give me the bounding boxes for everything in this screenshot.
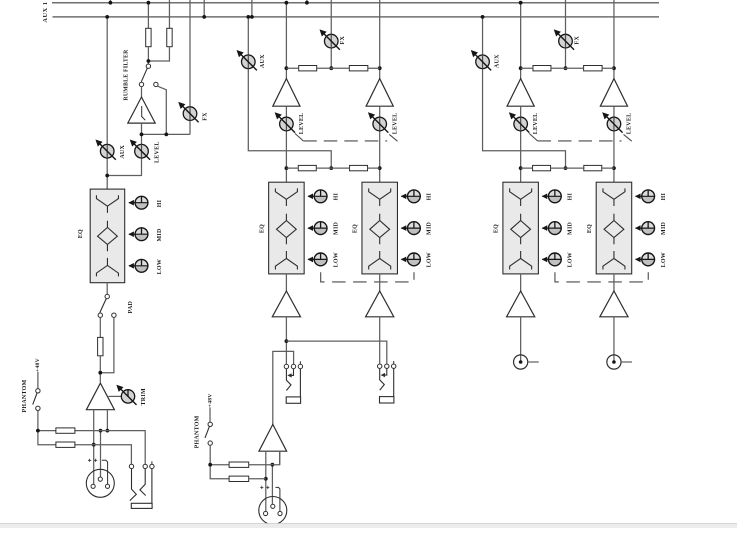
- wire R3 to preamp: [99, 356, 101, 383]
- jack connector line input jack 2R: [378, 361, 396, 403]
- node bypass join: [164, 133, 168, 137]
- wire R1 to filter switch: [147, 47, 149, 64]
- svg-text:MID: MID: [157, 228, 163, 241]
- wire 3 fx resistor row: [521, 67, 614, 69]
- resistor R aux-left 3: [533, 165, 551, 170]
- node junction at 565.5,168.1: [564, 166, 568, 170]
- wire AUX bus through AUX pot to EQ input: [106, 17, 108, 189]
- svg-text:EQ: EQ: [78, 229, 84, 238]
- resistor R aux-left 2: [298, 165, 316, 170]
- svg-text:AUX: AUX: [120, 145, 126, 159]
- wire stub to upper bus at x110: [109, 0, 111, 3]
- node bus1 tap 3L: [519, 1, 523, 5]
- wire 2L EQ to amp: [285, 274, 287, 291]
- resistor R2 rumble filter: [167, 28, 172, 46]
- node junction at 286.4,168.1: [285, 166, 289, 170]
- contact switch contact at 210.19999999999996,443.1: [208, 441, 212, 445]
- node bus2 x252: [250, 15, 254, 19]
- svg-text:+48V: +48V: [35, 358, 41, 372]
- trim knob MID 3R: [635, 222, 655, 235]
- EQ block EQ 3L: [503, 182, 539, 274]
- potentiometer LEVEL 2L: [276, 113, 295, 132]
- op-amp U out 3R: [600, 291, 628, 317]
- contact switch contact at 107.2,296.5: [105, 294, 109, 298]
- node junction at 331.24999999999994,168.1: [329, 166, 333, 170]
- wire 3 FX send line: [565, 0, 567, 68]
- node bus1 tap 2L: [285, 1, 289, 5]
- potentiometer FX 3: [555, 30, 574, 49]
- node bus2 tap 2: [246, 15, 250, 19]
- resistor R4 phantom ch1: [56, 428, 75, 433]
- node junction at 613.95,168.1: [612, 166, 616, 170]
- svg-text:AUX: AUX: [260, 54, 266, 68]
- contact switch contact at 113.9,315.2: [112, 313, 116, 317]
- node line1 join pin2: [99, 429, 103, 433]
- resistor R fx-left 3: [533, 66, 551, 71]
- pin marks 2: [260, 486, 269, 489]
- wire 2 preamp -in to XLR pin1: [265, 451, 267, 511]
- op-amp U2 mic preamp ch1: [86, 383, 114, 410]
- node phantom node 2: [208, 463, 212, 467]
- trim knob LOW 3R: [635, 253, 655, 266]
- node phantom join pin1: [92, 443, 96, 447]
- wire 2 left branch from bus1: [285, 3, 287, 79]
- svg-text:LOW: LOW: [568, 252, 574, 267]
- bus AUX 1 line B: [53, 16, 660, 18]
- svg-text:+48V: +48V: [208, 393, 214, 407]
- op-amp U out 3L: [507, 291, 535, 317]
- wire 2 phantom to resistors: [210, 445, 229, 479]
- svg-text:LEVEL: LEVEL: [392, 113, 398, 135]
- node bus2 tap ch1: [105, 15, 109, 19]
- wire 3 aux resistor row: [521, 167, 614, 169]
- wire 2R amp to jack tip: [379, 317, 381, 364]
- EQ block EQ 2R: [362, 182, 398, 274]
- node bus1 x148: [147, 1, 151, 5]
- wire switch to phantom resistors: [38, 411, 56, 445]
- wire bus1 to rumble resistor R1: [147, 3, 149, 29]
- node line1 join leg: [106, 429, 110, 433]
- node 2 phantom join pin1: [264, 477, 268, 481]
- gang link EQ 3: [555, 272, 648, 282]
- node junction at 520.65,68.2: [519, 66, 523, 70]
- potentiometer TRIM ch1: [117, 386, 136, 405]
- node 2 mono normal node: [285, 339, 289, 343]
- wire 2R EQ to amp: [379, 274, 381, 291]
- trim knob HI 3L: [542, 190, 562, 203]
- wire 2 line2: [249, 478, 266, 480]
- trim knob MID ch1: [128, 228, 148, 241]
- svg-text:AUX 1: AUX 1: [42, 1, 49, 22]
- svg-text:LOW: LOW: [333, 252, 339, 267]
- svg-text:MID: MID: [333, 221, 339, 234]
- svg-text:MID: MID: [427, 221, 433, 234]
- wire 2 FX send line: [330, 0, 332, 68]
- node junction at 520.65,168.1: [519, 166, 523, 170]
- svg-text:LOW: LOW: [157, 259, 163, 274]
- potentiometer AUX 2: [238, 51, 257, 70]
- op-amp U out 2L: [272, 291, 300, 317]
- wire FX pickup line ch1: [142, 133, 191, 135]
- wire 2R through LEVEL to EQ: [379, 106, 381, 182]
- wire 2L amp to jack tip: [285, 317, 287, 364]
- trim knob HI 3R: [635, 190, 655, 203]
- wire 3 AUX send path: [483, 17, 566, 168]
- gang link LEVEL 2: [295, 133, 303, 141]
- wire +48V to switch 2: [209, 407, 211, 422]
- node junction at 613.95,68.2: [612, 66, 616, 70]
- wire top to rumble resistor R2: [168, 0, 170, 28]
- wire to XLR pin2: [100, 431, 102, 477]
- svg-text:LEVEL: LEVEL: [299, 113, 305, 135]
- trim knob MID 2L: [307, 222, 327, 235]
- potentiometer AUX 3: [472, 51, 491, 70]
- svg-text:HI: HI: [157, 199, 163, 207]
- op-amp U buffer 3L: [507, 79, 534, 107]
- EQ block EQ 3R: [596, 182, 632, 274]
- potentiometer LEVEL ch1: [131, 140, 150, 159]
- svg-text:LOW: LOW: [427, 252, 433, 267]
- wire 2 AUX send path: [248, 17, 331, 168]
- node bus1 x110: [109, 1, 113, 5]
- wire 2L through LEVEL to EQ: [285, 106, 287, 182]
- trim knob LOW 2R: [401, 253, 421, 266]
- node EQ top node ch1: [105, 174, 109, 178]
- trim knob HI 2L: [307, 190, 327, 203]
- wire to R4: [38, 430, 56, 432]
- resistor R phantom-a 2: [229, 462, 249, 467]
- node pad junction: [98, 371, 102, 375]
- potentiometer LEVEL 3L: [510, 113, 529, 132]
- wire 3R amp to RCA: [613, 317, 615, 362]
- svg-text:EQ: EQ: [587, 224, 593, 233]
- resistor R fx-right 3: [584, 66, 603, 71]
- bus AUX 1 line A: [52, 2, 659, 4]
- wire 2 line1: [249, 451, 280, 465]
- resistor R3 pad: [98, 337, 103, 355]
- svg-text:LEVEL: LEVEL: [154, 141, 160, 163]
- svg-text:MID: MID: [661, 221, 667, 234]
- wire U1 out through LEVEL pot to EQ node: [107, 123, 141, 175]
- svg-text:HI: HI: [661, 192, 667, 200]
- svg-text:PHANTOM: PHANTOM: [22, 379, 28, 412]
- svg-text:EQ: EQ: [494, 224, 500, 233]
- resistor R fx-right 2: [349, 66, 368, 71]
- node bus2 tap 3: [481, 15, 485, 19]
- pin marks ch1: [88, 459, 97, 462]
- node phantom node ch1: [36, 429, 40, 433]
- op-amp U mic preamp 2: [259, 424, 287, 451]
- svg-text:AUX: AUX: [494, 54, 500, 68]
- potentiometer FX ch1: [179, 103, 198, 122]
- wire pad bypass riser: [100, 317, 114, 372]
- wire 2 aux resistor row: [286, 167, 379, 169]
- contact switch contact at 155.9,84.4: [154, 82, 158, 86]
- potentiometer LEVEL 2R: [369, 113, 388, 132]
- potentiometer FX 2: [320, 30, 339, 49]
- wire 2 preamp +in leg: [279, 451, 281, 465]
- potentiometer LEVEL 3R: [603, 113, 622, 132]
- wire 2 L normal to R jack ring: [286, 341, 386, 364]
- svg-text:MID: MID: [568, 221, 574, 234]
- wire 3L EQ to amp: [520, 274, 522, 291]
- wire 2 pin3 bracket: [276, 487, 280, 511]
- svg-text:HI: HI: [427, 192, 433, 200]
- svg-text:FX: FX: [574, 36, 580, 45]
- resistor R5 phantom ch1: [56, 442, 75, 447]
- trim knob MID 3L: [542, 222, 562, 235]
- trim knob LOW 3L: [542, 253, 562, 266]
- wire 2 to XLR pin2: [271, 465, 273, 505]
- contact switch contact at 210.19999999999996,424.3: [208, 422, 212, 426]
- trim knob HI ch1: [128, 196, 148, 209]
- wire stub to upper bus at x307: [306, 0, 308, 3]
- EQ block EQ ch1: [90, 189, 125, 283]
- svg-text:LOW: LOW: [661, 252, 667, 267]
- resistor R aux-right 3: [584, 165, 602, 170]
- svg-text:HI: HI: [568, 192, 574, 200]
- page edge band: [0, 524, 737, 528]
- contact switch contact at 148.4,66.2: [146, 64, 150, 68]
- wire phantom line1 to jack ring: [75, 431, 145, 465]
- jack connector ch1 line input: [129, 461, 154, 508]
- wire preamp -in to XLR pin1: [93, 410, 95, 484]
- op-amp U buffer 2L: [273, 79, 300, 107]
- wire stub crossing to AUX bus at x204: [203, 0, 205, 17]
- svg-text:EQ: EQ: [259, 224, 265, 233]
- svg-text:TRIM: TRIM: [141, 388, 147, 405]
- wire R2 to filter switch: [148, 47, 169, 61]
- potentiometer AUX ch1: [96, 140, 115, 159]
- wire 2 phantom to R top: [210, 464, 229, 466]
- wire phantom line2 to jack tip: [75, 445, 131, 465]
- svg-text:FX: FX: [340, 36, 346, 45]
- jack connector line input jack 2L: [284, 361, 302, 403]
- node junction at 565.5,68.2: [564, 66, 568, 70]
- wire 3R through LEVEL to EQ: [613, 106, 615, 182]
- wire 3 left branch from bus1: [520, 3, 522, 79]
- trim knob HI 2R: [401, 190, 421, 203]
- node junction at 286.4,68.2: [285, 66, 289, 70]
- op-amp U1 rumble filter amp: [128, 97, 155, 123]
- resistor R fx-left 2: [299, 66, 317, 71]
- svg-text:LEVEL: LEVEL: [533, 113, 539, 135]
- trim knob LOW 2L: [307, 253, 327, 266]
- wire +48V to switch: [37, 372, 39, 389]
- wire stub to AUX bus at x252: [251, 0, 253, 17]
- node U1 output node: [140, 133, 144, 137]
- op-amp U buffer 3R: [600, 79, 627, 107]
- node junction at 379.7,68.2: [378, 66, 382, 70]
- op-amp U out 2R: [366, 291, 394, 317]
- svg-text:EQ: EQ: [353, 224, 359, 233]
- node 2 line1 join pin2: [271, 463, 275, 467]
- contact switch contact at 141.5,84.4: [139, 82, 143, 86]
- wire EQ out to pad switch: [106, 283, 108, 295]
- trim knob LOW ch1: [128, 259, 148, 272]
- svg-text:LEVEL: LEVEL: [627, 113, 633, 135]
- gang link EQ 2: [321, 272, 414, 282]
- svg-text:PAD: PAD: [128, 300, 134, 313]
- resistor R1 rumble filter: [146, 28, 151, 46]
- resistor R aux-right 2: [350, 165, 368, 170]
- contact switch contact at 37.9,408.3: [36, 406, 40, 410]
- resistor R phantom-b 2: [229, 476, 249, 481]
- node bus2 x204: [202, 15, 206, 19]
- node bus1 x307: [305, 1, 309, 5]
- EQ block EQ 2L: [269, 182, 305, 274]
- wire switch to rumble amp U1: [141, 87, 143, 97]
- wire 3L amp to RCA: [520, 317, 522, 362]
- svg-text:HI: HI: [333, 192, 339, 200]
- op-amp U buffer 2R: [366, 79, 393, 107]
- contact switch contact at 100.3,315.2: [98, 313, 102, 317]
- contact switch contact at 37.9,390.8: [36, 389, 40, 393]
- wire preamp +in leg: [106, 410, 108, 431]
- wire preamp to TRIM pot: [108, 395, 121, 397]
- wire pin3 bracket: [102, 460, 108, 484]
- svg-text:RUMBLE FILTER: RUMBLE FILTER: [123, 49, 129, 101]
- node junction at 331.24999999999994,68.2: [329, 66, 333, 70]
- XLR connector XLR ch1: [86, 469, 114, 497]
- wire 2 fx resistor row: [286, 67, 379, 69]
- wire switch bypass to node: [158, 86, 167, 134]
- wire FX send ch1 to bus: [189, 0, 191, 134]
- XLR connector XLR 2: [259, 497, 287, 525]
- trim knob MID 2R: [401, 222, 421, 235]
- svg-text:PHANTOM: PHANTOM: [195, 415, 201, 448]
- wire 2 preamp out to L jack ring: [273, 351, 294, 424]
- wire 3R EQ to amp: [613, 274, 615, 291]
- wire 3L through LEVEL to EQ: [520, 106, 522, 182]
- wire pad to resistor R3: [99, 317, 101, 337]
- svg-text:FX: FX: [202, 112, 208, 121]
- node junction at 379.7,168.1: [378, 166, 382, 170]
- node rumble switch common: [147, 59, 151, 63]
- RCA connector RCA 3L: [514, 355, 539, 369]
- gang link LEVEL 3: [529, 133, 537, 141]
- wire 3 right branch from top: [613, 0, 615, 79]
- wire 2 right branch from top: [379, 0, 381, 79]
- RCA connector RCA 3R: [607, 355, 632, 369]
